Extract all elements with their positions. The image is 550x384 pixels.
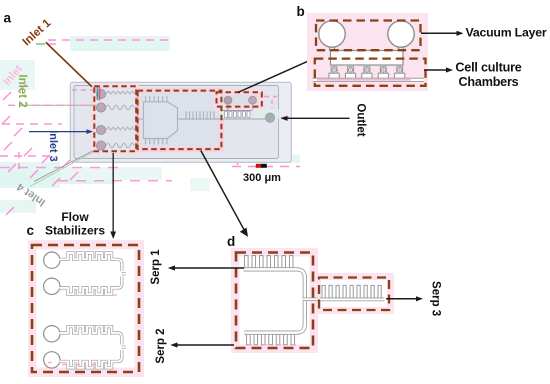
serp3 channel xyxy=(320,297,384,301)
on-chip cell chamber row xyxy=(223,104,253,111)
pink highlight under box1 xyxy=(92,84,140,154)
teal tick near inlet 1 xyxy=(96,87,98,100)
chip outer slab xyxy=(70,82,291,162)
svg-text:Serp 1: Serp 1 xyxy=(150,249,162,285)
gray panel inside box2 xyxy=(141,93,219,147)
small pink dashes on chip xyxy=(72,90,289,118)
arrow chip to panel d xyxy=(201,151,245,232)
pink dashes under d bottom teeth xyxy=(48,295,296,365)
cell culture chambers row xyxy=(329,67,405,79)
gray panel inside box3 xyxy=(221,95,258,105)
scale bar red part xyxy=(256,164,261,168)
cyan artifact patches xyxy=(0,36,300,213)
cell culture dashed box xyxy=(315,59,426,86)
merge channel vertical xyxy=(137,94,139,146)
svg-text:Chambers: Chambers xyxy=(459,75,519,89)
pink highlight under box3 xyxy=(214,90,265,111)
serp3 output stub xyxy=(303,298,318,301)
on-chip mixer body (mini panel d shape) xyxy=(144,96,267,144)
svg-text:a: a xyxy=(4,11,12,26)
circle stems xyxy=(330,47,404,52)
serp3 dashed box xyxy=(319,278,389,311)
cell culture arrow xyxy=(424,69,449,71)
pink background panel d xyxy=(231,248,318,353)
serp3 fingers xyxy=(186,111,214,119)
svg-text:Inlet 3: Inlet 3 xyxy=(47,130,59,161)
scale bar black part xyxy=(261,164,267,168)
svg-text:Serp 2: Serp 2 xyxy=(155,328,167,363)
Outlet arrow xyxy=(284,117,350,119)
vacuum connecting rectangle xyxy=(331,51,404,66)
Inlet 4 leader line gray xyxy=(34,151,93,182)
arrow chip to panel b xyxy=(238,56,320,93)
dashed box1 flow stabilizers on chip xyxy=(94,86,136,151)
pink background panel b xyxy=(307,13,428,91)
flow stabilizer unit 2 xyxy=(44,326,126,368)
vacuum port circle left on chip xyxy=(224,96,232,104)
svg-text:Stabilizers: Stabilizers xyxy=(45,224,105,238)
inlet port circle 4 xyxy=(96,141,105,150)
pink background panel c xyxy=(28,240,144,377)
Serp 3 arrow xyxy=(386,298,419,300)
inlet port circle 2 xyxy=(96,103,105,112)
outlet circle on chip xyxy=(265,113,274,122)
panel d dashed box xyxy=(236,253,313,349)
dashed box3 vacuum on chip xyxy=(217,92,262,106)
svg-text:Flow: Flow xyxy=(61,210,89,224)
vacuum circle left xyxy=(319,21,345,47)
svg-text:Inlet 2: Inlet 2 xyxy=(16,74,28,107)
vacuum layer dashed box xyxy=(316,21,421,51)
flow stabilizer unit 1 xyxy=(44,252,126,294)
svg-text:d: d xyxy=(227,234,235,249)
svg-text:c: c xyxy=(27,223,35,238)
mixer teeth top xyxy=(146,96,168,102)
vacuum port circle right on chip xyxy=(249,96,257,104)
mixer teeth bottom panel d xyxy=(247,332,295,345)
Inlet 3 leader arrow xyxy=(29,131,89,133)
arrow chip to panel c xyxy=(112,153,114,234)
Serp 2 arrow xyxy=(175,344,234,346)
vacuum circle right xyxy=(388,21,414,47)
Serp 1 arrow xyxy=(173,267,245,269)
mixer teeth top panel d xyxy=(245,256,294,270)
svg-text:Serp 3: Serp 3 xyxy=(430,281,442,316)
gray panel inside box1 xyxy=(96,88,134,150)
inlet port circle 3 xyxy=(96,125,105,134)
serp3 teeth xyxy=(322,285,381,300)
svg-text:Cell culture: Cell culture xyxy=(455,61,521,75)
pink highlight under box2 xyxy=(135,88,224,152)
Inlet 1 leader line xyxy=(46,42,92,87)
pink dashed artifact lines left region xyxy=(0,40,300,215)
panel c dashed box xyxy=(32,245,139,372)
Inlet 4 leader line green xyxy=(30,152,93,186)
serpentine squiggle channels after inlets xyxy=(106,91,144,148)
on-chip serpentine 3 channel xyxy=(178,118,267,120)
svg-text:Outlet: Outlet xyxy=(355,103,367,136)
svg-text:300 μm: 300 μm xyxy=(243,172,281,184)
bottom channel panel b xyxy=(313,78,425,82)
pink background serp3 xyxy=(314,273,394,314)
vacuum layer arrow xyxy=(421,32,459,34)
channel into mixer body xyxy=(138,118,144,120)
mixer main channel panel d xyxy=(244,269,305,332)
chip inner slab xyxy=(74,86,279,159)
svg-text:Vacuum Layer: Vacuum Layer xyxy=(466,26,547,40)
inlet port circle 1 xyxy=(96,89,105,98)
svg-text:b: b xyxy=(297,4,305,19)
Inlet 2 leader line xyxy=(19,104,96,106)
dashed box2 mixer on chip xyxy=(138,91,222,150)
mixer teeth bottom xyxy=(146,139,168,145)
